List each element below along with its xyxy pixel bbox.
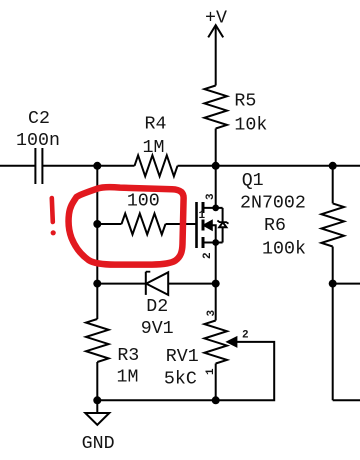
- svg-text:1M: 1M: [143, 138, 165, 158]
- svg-text:R3: R3: [117, 346, 139, 366]
- svg-text:3: 3: [205, 193, 217, 200]
- svg-text:C2: C2: [28, 109, 50, 129]
- svg-text:2: 2: [202, 252, 214, 259]
- svg-text:100n: 100n: [16, 131, 60, 151]
- svg-text:D2: D2: [146, 297, 168, 317]
- svg-text:R6: R6: [264, 216, 286, 236]
- svg-text:9V1: 9V1: [141, 319, 174, 339]
- svg-text:+V: +V: [205, 9, 227, 29]
- svg-text:2N7002: 2N7002: [240, 194, 306, 214]
- svg-text:1M: 1M: [117, 368, 139, 388]
- svg-text:2: 2: [242, 330, 249, 342]
- svg-text:1: 1: [205, 368, 217, 375]
- svg-text:100k: 100k: [262, 239, 306, 259]
- svg-text:RV1: RV1: [166, 347, 199, 367]
- svg-text:Q1: Q1: [242, 171, 264, 191]
- svg-text:5kC: 5kC: [164, 370, 197, 390]
- svg-text:R5: R5: [234, 92, 256, 112]
- svg-text:1: 1: [199, 210, 206, 222]
- svg-text:10k: 10k: [234, 116, 267, 136]
- svg-text:R4: R4: [145, 115, 167, 135]
- svg-text:3: 3: [206, 310, 218, 317]
- svg-text:100: 100: [127, 191, 160, 211]
- svg-text:GND: GND: [82, 434, 115, 454]
